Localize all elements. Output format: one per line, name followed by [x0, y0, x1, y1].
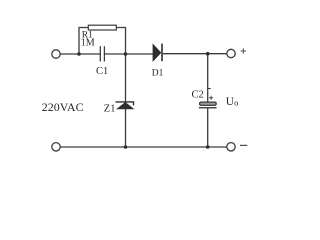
wire C2 branch upper vertical: [207, 54, 209, 102]
svg-text:Uo: Uo: [226, 96, 239, 108]
capacitor C2 top plate (pill): [200, 102, 217, 105]
terminal top-left: [52, 50, 60, 58]
svg-text:D1: D1: [152, 69, 164, 79]
terminal top-right (+): [227, 49, 235, 57]
diode D1 cathode bar: [161, 44, 163, 62]
svg-text:C2: C2: [192, 90, 204, 101]
tick on C2 wire: [208, 88, 211, 90]
terminal bottom-left: [52, 143, 60, 151]
junction dot Z1 bottom: [124, 145, 128, 149]
wire Z1 branch vertical (top wire to bottom rail): [125, 54, 127, 147]
svg-text:C1: C1: [96, 66, 108, 77]
capacitor C1 left plate: [99, 46, 101, 61]
wire top: C1 to D1: [105, 53, 153, 55]
wire bottom rail: [60, 146, 226, 148]
label plus at output terminal: [241, 48, 246, 53]
capacitor C2 bottom plate: [199, 107, 217, 109]
label plus at C2: [209, 96, 213, 100]
junction dot R1-C1 left: [77, 52, 81, 56]
wire R1 branch top-right + right vertical: [116, 28, 125, 55]
junction dot C2 bottom: [206, 145, 210, 149]
wire top: D1 to + terminal: [163, 53, 227, 55]
diode D1 triangle: [153, 44, 161, 61]
resistor R1 body: [88, 25, 116, 30]
wire R1 branch left vertical + top-left: [79, 28, 88, 55]
junction dot C2 top: [206, 52, 210, 56]
wire top: terminal to C1: [60, 53, 100, 55]
label minus at output terminal: [240, 144, 247, 146]
svg-text:1M: 1M: [81, 38, 95, 49]
svg-text:220VAC: 220VAC: [42, 100, 84, 114]
junction dot Z1 top: [124, 52, 128, 56]
zener Z1 cathode bar with right tail: [116, 102, 134, 106]
svg-text:Z1: Z1: [104, 103, 116, 114]
wire C2 branch lower vertical: [207, 108, 209, 147]
terminal bottom-right (-): [227, 143, 235, 151]
capacitor C1 right plate: [103, 46, 105, 61]
zener Z1 triangle (apex up): [117, 103, 133, 109]
